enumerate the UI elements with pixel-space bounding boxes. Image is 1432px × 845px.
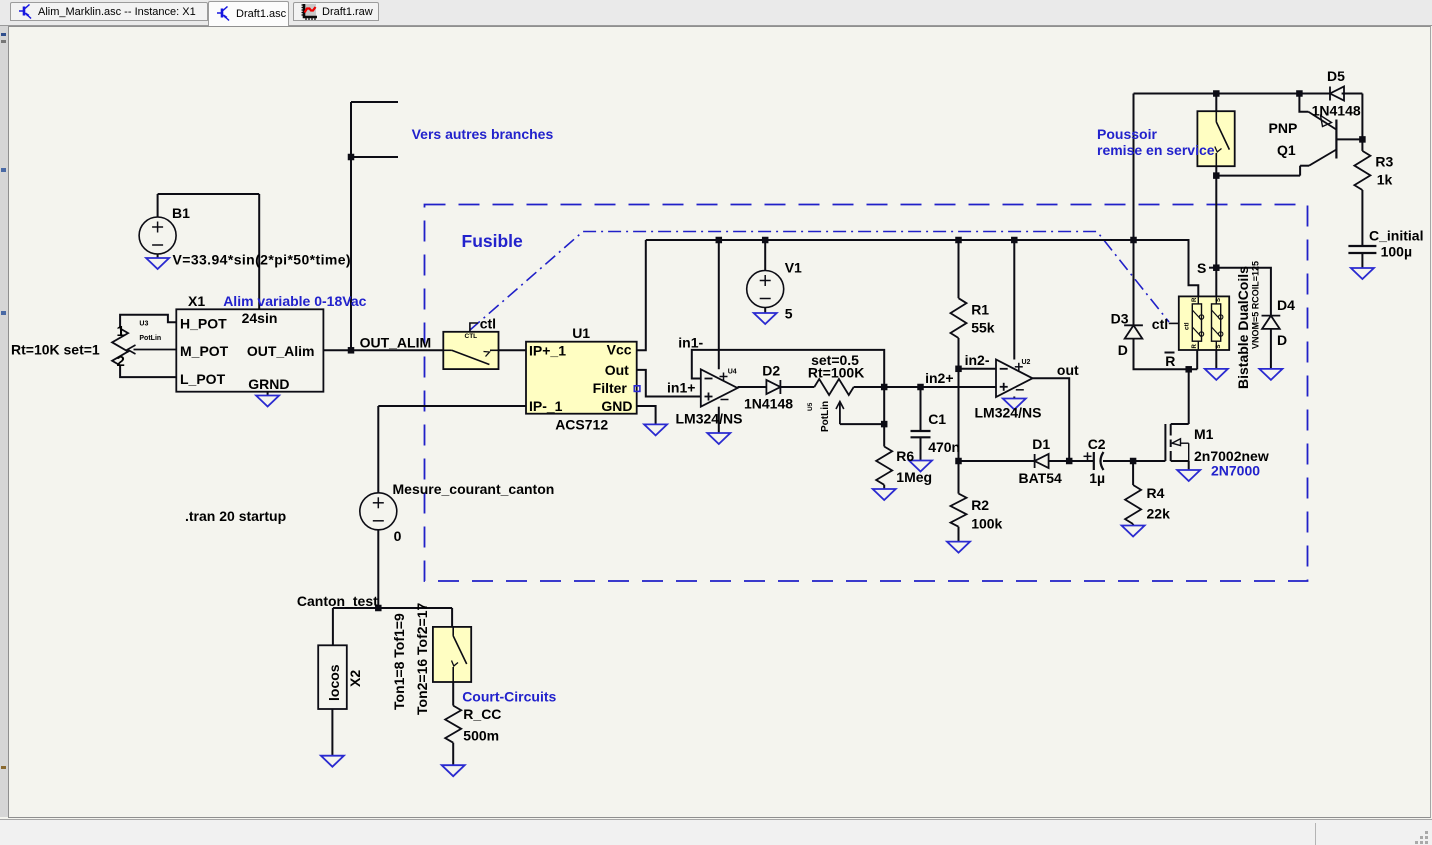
svg-text:ctl: ctl [1184,322,1191,330]
svg-text:D4: D4 [1277,297,1295,313]
svg-text:1: 1 [117,323,125,340]
svg-text:1k: 1k [1377,172,1393,188]
svg-text:D3: D3 [1111,311,1129,327]
svg-text:U2: U2 [1022,359,1031,366]
svg-text:PotLin: PotLin [820,401,831,432]
svg-text:500m: 500m [463,728,499,744]
svg-text:ACS712: ACS712 [555,417,608,433]
svg-text:V=33.94*sin(2*pi*50*time): V=33.94*sin(2*pi*50*time) [173,252,351,268]
svg-text:L_POT: L_POT [180,371,226,387]
svg-text:D: D [1277,332,1287,348]
svg-text:in1+: in1+ [667,379,695,395]
svg-text:X1: X1 [188,293,205,309]
svg-text:VNOM=5 RCOIL=125: VNOM=5 RCOIL=125 [1251,261,1261,349]
svg-text:V1: V1 [785,260,802,276]
svg-text:22k: 22k [1147,506,1171,522]
svg-text:1µ: 1µ [1089,470,1105,486]
svg-text:R1: R1 [971,302,989,318]
svg-text:Court-Circuits: Court-Circuits [462,689,556,705]
svg-text:U5: U5 [807,402,814,411]
svg-text:D1: D1 [1032,436,1050,452]
svg-text:U3: U3 [139,321,148,328]
svg-text:S: S [1216,344,1222,348]
svg-text:out: out [1057,362,1079,378]
svg-text:R_CC: R_CC [463,706,501,722]
svg-text:S: S [1197,260,1206,276]
svg-text:100µ: 100µ [1381,244,1412,260]
svg-text:remise en service: remise en service [1097,142,1215,158]
svg-text:Q1: Q1 [1277,142,1296,158]
svg-text:in2-: in2- [965,352,990,368]
svg-text:Vers autres branches: Vers autres branches [412,126,554,142]
svg-text:1N4148: 1N4148 [744,396,793,412]
svg-text:Ton1=8 Tof1=9: Ton1=8 Tof1=9 [391,613,407,710]
svg-text:C_initial: C_initial [1369,228,1423,244]
svg-text:GND: GND [601,398,632,414]
svg-text:U4: U4 [728,369,737,376]
svg-text:IP-_1: IP-_1 [529,398,563,414]
svg-text:2N7000: 2N7000 [1211,463,1260,479]
svg-text:1N4148: 1N4148 [1312,103,1361,119]
svg-text:LM324/NS: LM324/NS [975,405,1042,421]
svg-text:IP+_1: IP+_1 [529,343,566,359]
svg-text:Canton_test: Canton_test [297,593,378,609]
svg-text:Bistable DualCoils: Bistable DualCoils [1235,266,1251,389]
svg-text:R: R [1192,344,1198,349]
svg-text:BAT54: BAT54 [1019,470,1063,486]
svg-text:X2: X2 [347,670,363,687]
svg-text:0: 0 [394,528,402,544]
svg-text:1Meg: 1Meg [896,469,932,485]
svg-text:Mesure_courant_canton: Mesure_courant_canton [393,481,555,497]
svg-text:S: S [1216,298,1222,302]
svg-text:H_POT: H_POT [180,316,227,332]
svg-text:R: R [1165,353,1175,369]
svg-text:470n: 470n [928,439,960,455]
svg-text:D2: D2 [762,363,780,379]
svg-text:24sin: 24sin [242,310,278,326]
svg-text:R: R [1192,297,1198,302]
svg-text:Fusible: Fusible [462,231,524,251]
svg-text:Out: Out [605,362,629,378]
svg-text:R4: R4 [1147,485,1165,501]
svg-text:Vcc: Vcc [607,342,632,358]
svg-text:OUT_Alim: OUT_Alim [247,343,315,359]
svg-text:in1-: in1- [678,335,703,351]
svg-text:2: 2 [117,353,125,370]
svg-text:GRND: GRND [248,376,289,392]
svg-text:R6: R6 [896,448,914,464]
svg-text:PotLin: PotLin [139,335,161,342]
svg-text:R2: R2 [971,497,989,513]
svg-text:in2+: in2+ [925,370,953,386]
svg-text:Filter: Filter [593,380,628,396]
svg-text:.tran 20 startup: .tran 20 startup [185,508,286,524]
svg-text:Ton2=16 Tof2=17: Ton2=16 Tof2=17 [414,602,430,715]
svg-text:PNP: PNP [1269,120,1298,136]
svg-text:100k: 100k [971,516,1002,532]
svg-text:D5: D5 [1327,68,1345,84]
svg-text:55k: 55k [971,320,995,336]
svg-text:Rt=10K set=1: Rt=10K set=1 [11,342,100,358]
svg-text:OUT_ALIM: OUT_ALIM [360,335,432,351]
svg-text:Alim variable 0-18Vac: Alim variable 0-18Vac [223,293,366,309]
svg-text:LM324/NS: LM324/NS [676,411,743,427]
svg-text:C2: C2 [1088,436,1106,452]
svg-text:locos: locos [326,664,342,701]
svg-text:ctl: ctl [480,316,496,332]
svg-text:CTL: CTL [465,333,478,340]
svg-text:R3: R3 [1375,154,1393,170]
svg-text:U1: U1 [572,325,590,341]
svg-text:5: 5 [785,306,793,322]
svg-text:B1: B1 [172,205,190,221]
svg-text:M1: M1 [1194,426,1214,442]
svg-text:D: D [1118,342,1128,358]
svg-text:C1: C1 [928,411,946,427]
svg-text:M_POT: M_POT [180,343,229,359]
svg-text:ctl: ctl [1152,316,1168,332]
svg-text:Poussoir: Poussoir [1097,126,1157,142]
svg-text:Rt=100K: Rt=100K [808,365,864,381]
